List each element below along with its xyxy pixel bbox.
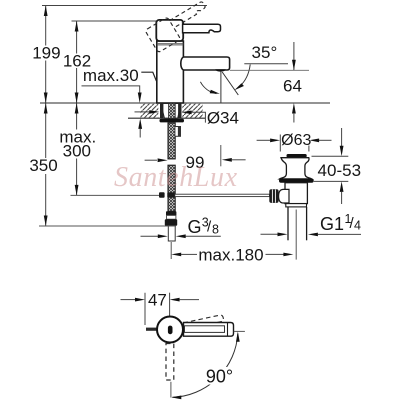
label 162 <box>62 54 93 69</box>
svg-text:4: 4 <box>354 219 361 233</box>
35 leader curved arrow <box>240 65 251 87</box>
dimension G1 1/4 arrows <box>261 233 279 235</box>
G3/8 dimension arrows <box>141 235 159 237</box>
waste flange <box>280 158 312 179</box>
max.30 underline <box>82 86 140 93</box>
countertop deck bottom line <box>128 117 205 119</box>
flexible hose upper <box>168 123 175 159</box>
extension line below Ø34 <box>220 145 222 166</box>
svg-text:G: G <box>188 217 202 237</box>
waste plug cap <box>287 154 307 158</box>
waste band <box>286 204 307 207</box>
waste tailpipe <box>287 207 289 240</box>
top view: spout inner <box>185 326 225 333</box>
svg-text:Ø34: Ø34 <box>207 109 239 128</box>
35 vertical stream ray <box>220 71 222 103</box>
top view: lever stub left <box>146 328 158 331</box>
G3/8 connector middle <box>167 215 176 219</box>
countertop deck top line <box>40 102 330 104</box>
knurled knob <box>269 189 278 203</box>
arrow 350 bottom <box>44 216 48 227</box>
svg-text:350: 350 <box>29 156 57 175</box>
svg-text:40-53: 40-53 <box>318 161 361 180</box>
top view: spout end divider <box>227 323 229 337</box>
label 350 <box>29 158 62 174</box>
top view: dashed handle down <box>166 344 174 381</box>
svg-text:SantehLux: SantehLux <box>114 162 238 193</box>
arrow 199 bottom <box>44 93 48 104</box>
dashed raised handle (rotated) <box>145 0 213 53</box>
svg-text:35°: 35° <box>252 43 278 62</box>
arrow max.30 down to deck <box>138 93 142 104</box>
arrow max.30 up below deck <box>138 118 142 128</box>
label max.300 <box>59 130 98 159</box>
svg-text:47: 47 <box>148 290 167 309</box>
extension line below dashed handle <box>170 382 172 398</box>
max.30 leader hook to body <box>141 72 156 81</box>
svg-text:max.30: max.30 <box>83 66 139 85</box>
svg-text:G1: G1 <box>320 214 344 234</box>
G3/8 nut <box>165 219 177 226</box>
G3/8 tube <box>168 226 175 241</box>
handle housing <box>156 20 183 41</box>
90 degree arc <box>172 334 237 398</box>
arrow max300 top <box>75 103 79 114</box>
arrow 199 top <box>44 6 48 17</box>
reference line 162 top <box>72 20 157 22</box>
locknut <box>160 119 185 123</box>
arrow 162 top <box>75 21 79 32</box>
faucet centerline below <box>170 242 172 259</box>
top view: dashed swivel spout <box>183 315 223 330</box>
dimension 64 vertical <box>293 42 295 70</box>
pop-up rod horizontal <box>71 194 161 196</box>
ball joint housing <box>279 189 289 203</box>
rod coupling blocks <box>159 192 165 198</box>
arrow 162 bottom <box>75 93 79 104</box>
dimension line 199/350 vertical <box>45 6 47 227</box>
lever handle <box>183 24 221 32</box>
top view: body circle <box>157 317 183 343</box>
top view: dimension 47 <box>144 293 146 325</box>
svg-text:300: 300 <box>63 142 91 161</box>
35 inclined stream ray <box>222 72 238 95</box>
350 bottom reference line <box>39 225 176 227</box>
35 underline <box>244 63 288 65</box>
top view: center slot <box>168 326 173 335</box>
mounting shank side bars <box>160 104 163 118</box>
svg-text:64: 64 <box>283 77 302 96</box>
body collar lines <box>157 43 184 45</box>
arrow max300 bottom <box>75 185 79 196</box>
arrow 350 top <box>44 103 48 114</box>
aerator <box>215 69 225 71</box>
waste centerline <box>295 210 297 260</box>
label 90 degrees <box>204 367 236 385</box>
waste o-ring <box>279 179 314 183</box>
top view: centerline right <box>234 330 245 332</box>
label 199 <box>31 46 62 61</box>
35 left curved arrow <box>200 82 216 94</box>
dimension max.180 <box>171 253 181 257</box>
svg-text:199: 199 <box>32 44 60 63</box>
mounting shank trapezoid <box>161 103 181 118</box>
hole dimension arrows under deck <box>135 111 151 113</box>
dimension 40-53 <box>341 128 343 147</box>
svg-text:max.180: max.180 <box>198 245 263 264</box>
svg-text:8: 8 <box>212 223 219 237</box>
reference line 199 top <box>42 5 207 7</box>
deck hatching left <box>141 104 159 118</box>
top view: spout outer <box>184 323 234 337</box>
svg-text:90°: 90° <box>206 367 233 387</box>
hose clip <box>175 127 181 137</box>
faucet spout <box>181 57 230 70</box>
faucet body column <box>157 41 184 103</box>
flexible hose lower <box>168 165 175 211</box>
G3/8 connector upper band <box>166 211 176 215</box>
leader to Ø34 <box>191 112 205 122</box>
waste body <box>285 183 307 204</box>
svg-text:Ø63: Ø63 <box>281 132 311 149</box>
dimension line 162/max300 vertical <box>76 21 78 195</box>
dimension 99 <box>145 159 157 161</box>
threaded stud <box>169 103 176 118</box>
deck hatching right <box>182 104 203 118</box>
pop-up waste: dimension Ø63 <box>279 135 281 152</box>
